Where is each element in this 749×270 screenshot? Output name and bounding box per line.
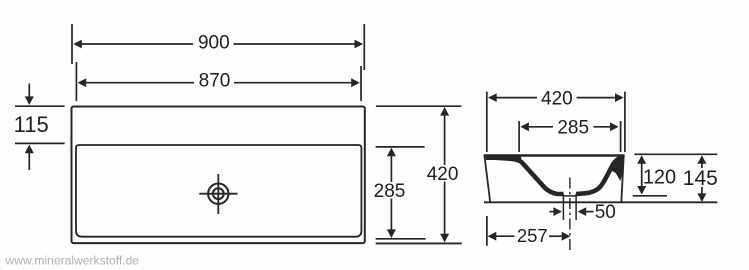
- side view 420 dimension: left arrowhead: [488, 93, 497, 102]
- side section: top rim line: [484, 154, 624, 156]
- dimension 870: left extension line: [75, 62, 77, 101]
- dimension 870: left arrowhead: [78, 78, 87, 87]
- dimension 900: dimension line right segment: [234, 43, 356, 45]
- dimension 115: upper extension line: [15, 105, 65, 107]
- dimension 115: lower extension line: [15, 142, 65, 144]
- svg-text:50: 50: [595, 202, 616, 223]
- dimension 257: left extension line: [486, 216, 488, 246]
- side section: bowl inner surface right curve: [576, 157, 622, 194]
- side section: bowl inner surface left curve: [488, 157, 563, 194]
- side view 420 dimension: line left segment: [496, 97, 537, 99]
- dimension 115: upper arrow shaft: [28, 84, 30, 98]
- dimension 120: bottom extension line: [633, 195, 667, 197]
- svg-text:www.mineralwerkstoff.de: www.mineralwerkstoff.de: [5, 254, 140, 268]
- side view 285 dimension: left arrowhead: [520, 122, 529, 131]
- drain crosshair: horizontal cross line: [199, 193, 237, 195]
- front 420 dimension: bottom extension line: [376, 242, 462, 244]
- side view 285 dimension: line left segment: [528, 126, 553, 128]
- svg-text:870: 870: [199, 71, 231, 92]
- dimension 900: left arrowhead: [73, 40, 82, 49]
- dimension 145: vertical line upper segment: [701, 163, 703, 168]
- front 285 dimension: top arrowhead (up): [387, 148, 396, 157]
- side section: bottom line with right extension: [484, 201, 717, 203]
- front 420 dimension: top extension line: [376, 105, 462, 107]
- svg-text:120: 120: [643, 167, 676, 189]
- svg-text:900: 900: [198, 33, 230, 54]
- drain crosshair: vertical cross line: [217, 174, 219, 214]
- dimension 900: left extension line: [71, 24, 73, 64]
- svg-text:145: 145: [683, 167, 718, 190]
- front 420 dimension: line upper segment: [444, 115, 446, 166]
- dimension 870: right extension line: [360, 66, 362, 101]
- svg-text:420: 420: [541, 88, 573, 109]
- top extension line shared by 120/145: [634, 153, 717, 155]
- front 420 dimension: bottom arrowhead (down): [440, 234, 449, 243]
- dimension 120: bottom arrowhead (down): [637, 186, 646, 195]
- front 285 dimension: line lower segment: [390, 199, 392, 231]
- side section: left rim-bowl junction fill: [486, 155, 522, 163]
- drain: left vertical line: [562, 194, 564, 220]
- dimension 900: right extension line: [363, 24, 365, 70]
- side view 285 dimension: right extension line: [620, 121, 622, 152]
- side section: left outer wall edge: [484, 155, 490, 203]
- side section: right outer wall edge: [621, 155, 624, 203]
- side view 285 dimension: right arrowhead: [610, 122, 619, 131]
- dimension 870: dimension line right segment: [234, 82, 352, 84]
- front view: basin outer rectangle: [72, 107, 365, 244]
- dimension 257: dimension line left segment: [496, 235, 515, 237]
- front view: basin inner opening rounded rectangle: [76, 145, 361, 237]
- front 420 dimension: top arrowhead (up): [440, 107, 449, 116]
- drain crosshair symbol: outer circle: [208, 184, 228, 204]
- side view 285 dimension: left extension line: [518, 121, 520, 152]
- drain centerline (dash-dot): [569, 178, 571, 251]
- dimension 115: upper arrowhead (down): [25, 96, 34, 105]
- side view 420 dimension: line right segment: [577, 97, 615, 99]
- dimension 145: top arrowhead (up): [697, 155, 706, 164]
- dimension 50: right arrow shaft: [586, 211, 594, 213]
- dimension 50: left arrowhead (pointing right): [553, 207, 562, 216]
- dimension 145: vertical line lower segment: [701, 187, 703, 195]
- dimension 115: lower arrow shaft: [28, 153, 30, 171]
- dimension 870: right arrowhead: [351, 78, 360, 87]
- side view 285 dimension: line right segment: [594, 126, 611, 128]
- dimension 257: left arrowhead (pointing left): [488, 232, 497, 241]
- dimension 115: lower arrowhead (up): [25, 145, 34, 154]
- dimension 257: dimension line right segment: [549, 235, 562, 237]
- svg-text:257: 257: [517, 225, 548, 246]
- side view 420 dimension: right extension line: [624, 92, 626, 152]
- svg-text:285: 285: [557, 117, 589, 138]
- dimension 50: left arrow shaft: [550, 211, 555, 213]
- side view 420 dimension: right arrowhead: [615, 93, 624, 102]
- front 285 dimension: top extension line: [376, 146, 425, 148]
- side section: right rim-bowl junction fill: [609, 155, 624, 181]
- front 285 dimension: bottom arrowhead (down): [387, 229, 396, 238]
- front 285 dimension: bottom extension line: [376, 238, 426, 240]
- dimension 120: top arrowhead (up): [637, 155, 646, 164]
- side view 420 dimension: left extension line: [486, 92, 488, 152]
- dimension 900: dimension line left segment: [81, 43, 193, 45]
- dimension 145: bottom arrowhead (down): [697, 193, 706, 202]
- svg-text:285: 285: [374, 181, 406, 202]
- front 420 dimension: line lower segment: [444, 182, 446, 235]
- dimension 257: right arrowhead (pointing right): [562, 232, 571, 241]
- drain crosshair symbol: inner circle: [213, 188, 224, 199]
- drain: right vertical line: [575, 194, 577, 220]
- front 285 dimension: line upper segment: [390, 155, 392, 182]
- svg-text:115: 115: [14, 112, 49, 137]
- dimension 900: right arrowhead: [355, 40, 364, 49]
- svg-text:420: 420: [427, 164, 459, 185]
- dimension 120: vertical line: [641, 163, 643, 188]
- drain: top flange line: [563, 195, 576, 197]
- dimension 50: right arrowhead (pointing left): [578, 207, 587, 216]
- dimension 870: dimension line left segment: [86, 82, 195, 84]
